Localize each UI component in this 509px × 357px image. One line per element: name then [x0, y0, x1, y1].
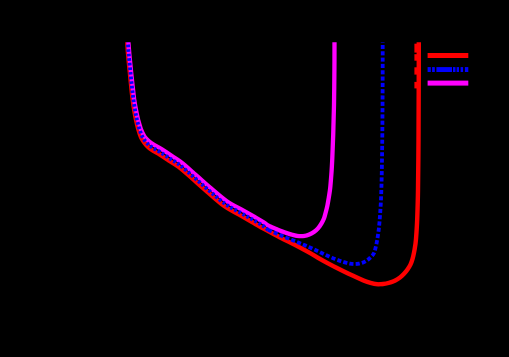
legend red line — [428, 53, 469, 58]
legend magenta line — [428, 81, 469, 86]
red bump 1 on asymptote — [414, 44, 418, 53]
curve red (solid) — [127, 40, 419, 284]
curve magenta (solid) — [128, 40, 334, 236]
curve blue dashed (left merged branch) — [128, 40, 268, 230]
red bump 4 on asymptote — [414, 82, 418, 89]
red bump 3 on asymptote — [414, 67, 418, 74]
curve blue dashed (right branch to asymptote) — [268, 40, 383, 264]
legend blue dashed line — [428, 67, 469, 72]
red bump 2 on asymptote — [414, 54, 418, 61]
